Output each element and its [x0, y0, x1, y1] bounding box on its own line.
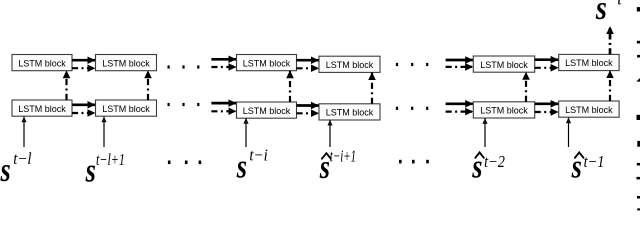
- wire: solid output arrow, top row, ellipsis to column 5: [446, 59, 473, 62]
- label s^(t-l): [0, 149, 32, 189]
- LSTM block U2a (top row, column 2): [96, 55, 157, 71]
- label s^(t-l+1): [85, 150, 125, 190]
- label s-hat^(t-i+1): [319, 147, 356, 187]
- LSTM block U1b (bottom row, column 1): [12, 100, 72, 116]
- wire: solid output arrow, bottom row, column 5 to column 6: [535, 102, 559, 105]
- wire: input arrow 1 from label into bottom LSTM block: [23, 117, 25, 147]
- wire: vertical dash-dot arrow column 2, bottom row to top row: [147, 71, 149, 100]
- wire: solid output arrow, bottom row, ellipsis to column 3: [211, 102, 236, 105]
- wire: dash-dot state arrow, top row, column 5 to column 6: [535, 67, 559, 69]
- ellipsis dots, bottom row, between columns 4 and 5: [396, 107, 398, 110]
- wire: dash-dot state arrow, top row, column 1 to column 2: [72, 67, 95, 69]
- svg-text:LSTM block: LSTM block: [326, 60, 374, 70]
- ellipsis dots between labels s-hat^t-i+1 and s-hat^t-2: [399, 160, 402, 164]
- LSTM block U5b (bottom row, column 5): [473, 102, 534, 118]
- svg-text:t−i+1: t−i+1: [330, 147, 356, 166]
- svg-text:LSTM block: LSTM block: [18, 58, 66, 68]
- svg-text:LSTM block: LSTM block: [480, 106, 528, 116]
- wire: vertical dash-dot arrow column 4, bottom row to top row: [371, 72, 373, 103]
- ellipsis dots, bottom row, between columns 2 and 3: [168, 103, 170, 106]
- cropped text fragment 3 at right page edge: [637, 55, 640, 58]
- wire: input arrow 4 from label into bottom LSTM block: [329, 120, 331, 147]
- svg-text:s: s: [236, 149, 247, 186]
- LSTM block U3a (top row, column 3): [237, 55, 297, 71]
- wire: input arrow 6 from label into bottom LSTM block: [568, 118, 570, 147]
- svg-text:LSTM block: LSTM block: [18, 104, 66, 114]
- wire: input arrow 3 from label into bottom LSTM block: [245, 118, 247, 147]
- wire: solid output arrow, bottom row, column 1 to column 2: [72, 103, 95, 106]
- wire: dash-dot state arrow, top row, ellipsis to column 5: [446, 66, 473, 68]
- cropped text fragment 8 at right page edge: [637, 177, 640, 180]
- LSTM block U6b (bottom row, column 6): [559, 101, 619, 117]
- svg-text:LSTM block: LSTM block: [326, 108, 374, 118]
- wire: dash-dot state arrow, bottom row, column 3 to column 4: [297, 112, 319, 114]
- wire: dash-dot state arrow, bottom row, column 1 to column 2: [72, 112, 95, 114]
- label s^t (network output, top right): [595, 0, 623, 27]
- svg-text:t−2: t−2: [484, 152, 505, 171]
- LSTM block U3b (bottom row, column 3): [237, 102, 297, 118]
- LSTM block U5a (top row, column 5): [473, 56, 534, 72]
- svg-text:LSTM block: LSTM block: [102, 58, 150, 68]
- svg-text:LSTM block: LSTM block: [243, 58, 291, 68]
- wire: solid output arrow, bottom row, ellipsis to column 5: [446, 102, 473, 105]
- cropped text fragment 1 at right page edge: [637, 7, 640, 11]
- wire: solid output arrow, top row, column 5 to column 6: [535, 58, 559, 61]
- wire: vertical dash-dot arrow column 3, bottom row to top row: [289, 71, 291, 102]
- cropped text fragment 6 at right page edge: [637, 141, 640, 147]
- label s-hat^(t-1): [571, 149, 605, 186]
- ellipsis dots, top row, between columns 4 and 5: [396, 63, 398, 66]
- cropped text fragment 5 at right page edge: [637, 115, 640, 120]
- LSTM block U4b (bottom row, column 4): [319, 104, 380, 120]
- wire: dash-dot state arrow, bottom row, ellipsis to column 3: [211, 110, 236, 112]
- LSTM block U4a (top row, column 4): [319, 56, 380, 72]
- wire: dash-dot state arrow, top row, ellipsis to column 3: [211, 66, 236, 68]
- wire: solid output arrow, top row, column 1 to column 2: [72, 59, 95, 62]
- wire: vertical dash-dot arrow column 6, bottom row to top row: [609, 71, 611, 101]
- ellipsis dots between labels s^t-l+1 and s^t-i: [168, 161, 171, 165]
- svg-text:LSTM block: LSTM block: [102, 104, 150, 114]
- wire: solid output arrow, top row, column 3 to column 4: [297, 59, 319, 62]
- svg-text:LSTM block: LSTM block: [480, 60, 528, 70]
- wire: dash-dot output arrow to s^t (top right): [609, 27, 612, 55]
- wire: vertical dash-dot arrow column 5, bottom row to top row: [525, 72, 527, 102]
- cropped text fragment 4 at right page edge: [636, 78, 640, 82]
- svg-text:LSTM block: LSTM block: [565, 105, 613, 115]
- svg-text:s: s: [0, 152, 11, 189]
- LSTM block U6a (top row, column 6): [559, 54, 619, 70]
- svg-text:t−l+1: t−l+1: [96, 150, 125, 169]
- svg-text:t−l: t−l: [13, 149, 32, 168]
- wire: dash-dot state arrow, bottom row, column 5 to column 6: [535, 111, 559, 113]
- LSTM block U1a (top row, column 1): [12, 55, 72, 71]
- svg-text:t−1: t−1: [584, 152, 605, 171]
- cropped text fragment 9 at right page edge: [637, 196, 640, 199]
- ellipsis dots, top row, between columns 2 and 3: [168, 65, 170, 68]
- svg-text:s: s: [85, 153, 96, 190]
- LSTM block U2b (bottom row, column 2): [96, 100, 157, 116]
- wire: input arrow 2 from label into bottom LSTM block: [103, 117, 105, 147]
- wire: dash-dot state arrow, top row, column 3 to column 4: [297, 67, 319, 69]
- wire: dash-dot state arrow, bottom row, ellipsis to column 5: [446, 110, 473, 112]
- svg-text:LSTM block: LSTM block: [565, 58, 613, 68]
- cropped text fragment 2 at right page edge: [637, 41, 640, 44]
- wire: solid output arrow, bottom row, column 3 to column 4: [297, 104, 319, 107]
- wire: input arrow 5 from label into bottom LSTM block: [484, 118, 486, 147]
- label s-hat^(t-2): [471, 149, 505, 186]
- svg-text:LSTM block: LSTM block: [243, 106, 291, 116]
- cropped text fragment 7 at right page edge: [637, 163, 640, 166]
- svg-text:t−i: t−i: [249, 146, 268, 165]
- cropped text fragment 10 at right page edge: [637, 208, 640, 210]
- svg-text:s: s: [595, 0, 607, 27]
- wire: vertical dash-dot arrow column 1, bottom row to top row: [65, 71, 67, 100]
- wire: solid output arrow, top row, ellipsis to column 3: [211, 58, 236, 61]
- label s^(t-i): [236, 146, 268, 186]
